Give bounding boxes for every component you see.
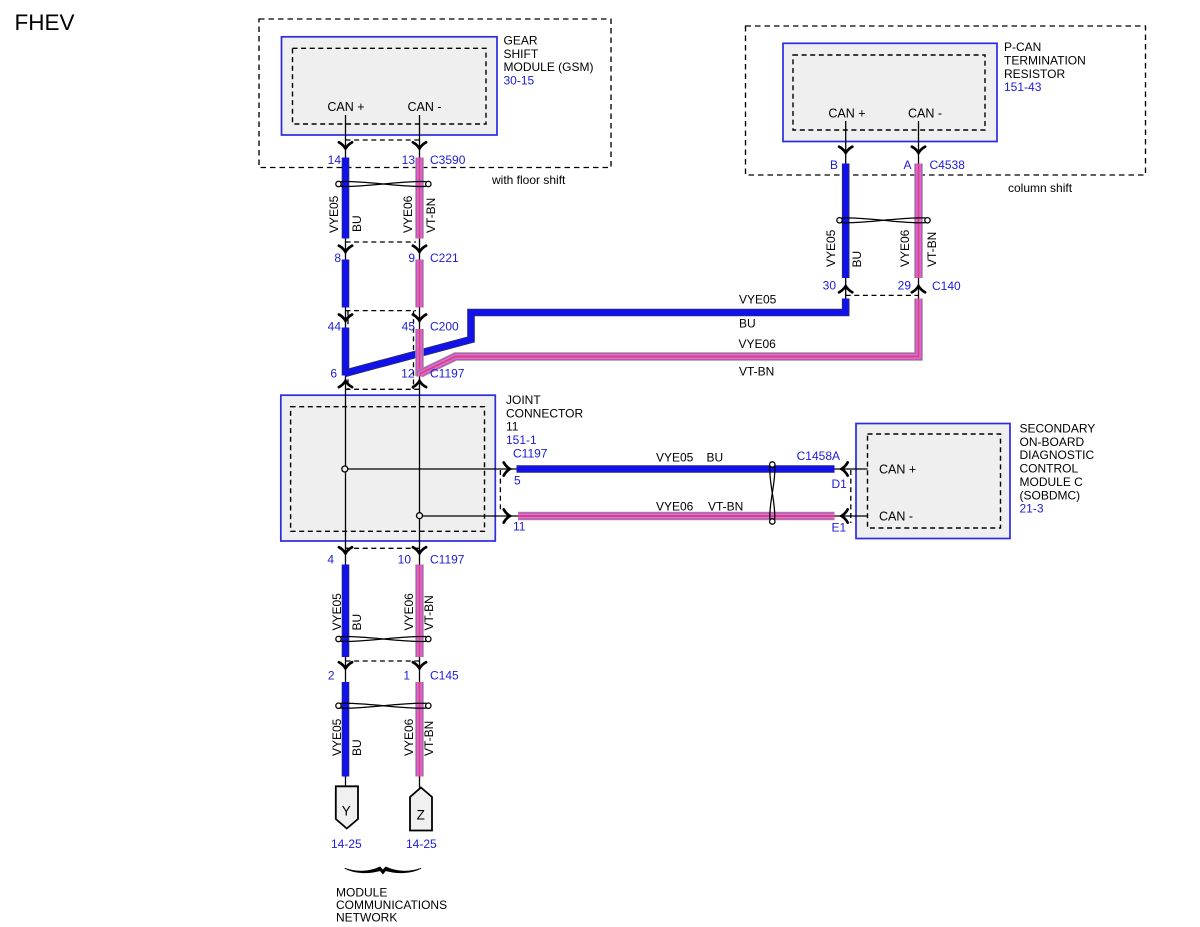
P-CAN termination resistor inner dashed connector box [793,55,985,130]
svg-text:29: 29 [898,278,912,292]
twisted pair symbol (GSM drop) [336,181,431,186]
svg-text:MODULE C: MODULE C [1020,475,1084,489]
P-CAN termination resistor blue module box [783,43,997,141]
svg-text:11: 11 [506,420,519,434]
arrow at C200 pin 45 [413,315,426,321]
arrow into P-CAN pin A [912,147,925,153]
joint connector 11 blue module box [281,395,496,541]
svg-text:CAN +: CAN + [828,107,865,121]
arrow into SOBDMC pin E1 [841,509,847,522]
arrow at C145 pin 2 [339,662,352,668]
svg-text:C200: C200 [430,320,459,334]
arrow into SOBDMC pin D1 [841,462,847,475]
connector C1197 dashed line (pins 5/11) [499,470,501,510]
arrow at C145 pin 1 [413,662,426,668]
GSM module label [504,34,594,88]
wire VYE05 (BU) segment, C145 pin 2 to terminal Y [342,682,350,777]
svg-text:45: 45 [402,320,416,334]
svg-text:VYE06: VYE06 [656,499,694,513]
svg-text:SHIFT: SHIFT [504,47,539,61]
svg-text:BU: BU [739,317,756,331]
arrow at C140 pin 29 [912,286,925,292]
SOBDMC module label [1020,422,1096,516]
svg-text:NETWORK: NETWORK [336,910,397,924]
svg-text:13: 13 [402,153,416,167]
svg-text:C1197: C1197 [513,446,548,460]
svg-text:D1: D1 [832,477,848,491]
svg-text:column shift: column shift [1008,181,1073,195]
svg-text:JOINT: JOINT [506,393,541,407]
svg-text:1: 1 [403,669,410,683]
svg-text:ON-BOARD: ON-BOARD [1020,435,1085,449]
svg-text:C221: C221 [430,251,459,265]
joint connector internal node, pin 6/4 bus junction [342,466,348,472]
gear shift module (GSM) outer dashed boundary [259,19,611,168]
joint connector label [506,393,583,447]
svg-text:VT-BN: VT-BN [422,595,436,630]
svg-text:151-1: 151-1 [506,433,537,447]
arrow at C140 pin 30 [839,286,852,292]
connector C145 dashed line [346,660,421,662]
svg-text:VYE06: VYE06 [898,229,912,267]
svg-text:VYE05: VYE05 [739,293,777,307]
svg-text:(SOBDMC): (SOBDMC) [1020,488,1081,502]
wire CAN- thin lead, GSM pin 13 down to terminal Z [419,115,421,788]
svg-text:44: 44 [328,320,342,334]
svg-text:BU: BU [350,614,364,631]
arrow at C1197 pin 10 [413,547,426,553]
wire VYE06 (VT-BN) run, C140 pin 29 to C1197 pin 12 [420,299,918,377]
arrow at C1197 pin 4 [339,547,352,553]
arrow at C1197 pin 12 [413,381,426,387]
svg-text:2: 2 [328,669,335,683]
joint connector internal node, pin 12/10 bus junction [417,513,423,519]
svg-text:CAN +: CAN + [879,463,916,477]
svg-text:9: 9 [408,251,415,265]
svg-text:BU: BU [350,215,364,232]
svg-text:11: 11 [513,520,526,534]
gear shift module (GSM) blue module box [282,37,498,135]
connector C1458A dashed line [850,470,852,523]
wire VYE06 (VT-BN) segment, C1197 pin 10 to C145 pin 1 [415,565,424,658]
gear shift module (GSM) inner dashed connector box [293,48,487,124]
svg-text:CAN -: CAN - [407,100,441,114]
brace for module communications network group [345,867,421,874]
SOBDMC inner dashed connector box [868,434,1001,528]
wire VYE05 (BU) run, C140 pin 30 to C1197 pin 6 [345,299,846,374]
svg-text:VT-BN: VT-BN [422,721,436,756]
svg-text:VYE06: VYE06 [401,195,415,233]
svg-text:BU: BU [350,739,364,756]
svg-text:VT-BN: VT-BN [739,365,774,379]
wire CAN+ thin lead, P-CAN resistor pin B to C140 pin 30 [845,121,847,299]
svg-text:30: 30 [823,278,837,292]
wire VYE05 (BU) segment, C1197 pin 4 to C145 pin 2 [342,565,350,658]
arrow out of joint connector pin 5 [504,462,510,475]
wire VYE06 (VT-BN) segment, GSM pin 13 to C221 pin 9 [415,158,424,239]
arrow into P-CAN pin B [839,147,852,153]
terminal Y (eyelet) [336,786,358,828]
svg-text:VYE06: VYE06 [402,718,416,756]
svg-text:SECONDARY: SECONDARY [1020,422,1096,436]
svg-text:BU: BU [850,251,864,268]
svg-text:BU: BU [707,450,724,464]
svg-text:C145: C145 [430,669,459,683]
svg-text:RESISTOR: RESISTOR [1004,67,1065,81]
module communications network caption [336,885,447,924]
wire VYE06 (VT-BN) segment, C200 pin 45 to C1197 pin 12 [415,329,424,376]
connector C1197 dashed boundary right side [413,311,415,390]
svg-text:Y: Y [342,804,351,819]
svg-text:8: 8 [334,251,341,265]
svg-text:C140: C140 [932,279,961,293]
svg-text:MODULE (GSM): MODULE (GSM) [504,60,594,74]
svg-text:VYE06: VYE06 [402,593,416,631]
connector C140 dashed line [846,294,919,296]
svg-text:C3590: C3590 [430,153,466,167]
svg-text:151-43: 151-43 [1004,80,1042,94]
svg-text:VYE06: VYE06 [739,337,777,351]
terminal Z (blade) [410,788,432,831]
wire CAN+ thin lead, GSM pin 14 down to terminal Y [345,115,347,786]
svg-text:C4538: C4538 [930,158,966,172]
svg-text:30-15: 30-15 [504,73,535,87]
wire VYE06 (VT-BN) segment, joint connector pin 11 to SOBDMC E1 [518,512,835,521]
connector C200 dashed line [346,310,417,312]
svg-text:VT-BN: VT-BN [708,499,743,513]
svg-text:CAN -: CAN - [908,107,942,121]
P-CAN termination resistor outer dashed boundary [746,26,1146,175]
P-CAN termination resistor label [1004,40,1086,94]
twisted pair symbol (below joint connector) [336,636,431,641]
svg-text:VYE05: VYE05 [330,718,344,756]
svg-text:VT-BN: VT-BN [424,198,438,233]
svg-text:21-3: 21-3 [1020,502,1044,516]
svg-text:10: 10 [398,552,412,566]
wire VYE06 (VT-BN) segment, C221 pin 9 to C200 pin 45 [415,260,424,308]
svg-text:12: 12 [401,367,415,381]
svg-text:C1458A: C1458A [797,449,840,463]
svg-text:GEAR: GEAR [504,34,538,48]
svg-text:Z: Z [417,808,425,823]
svg-text:TERMINATION: TERMINATION [1004,54,1086,68]
arrow at C221 pin 9 [413,246,426,252]
svg-text:P-CAN: P-CAN [1004,40,1041,54]
twisted pair symbol (P-CAN drop) [837,218,930,223]
svg-text:C1197: C1197 [430,552,465,566]
wire CAN- thin lead, P-CAN resistor pin A to C140 pin 29 [918,121,920,299]
joint connector 11 inner dashed connector box [291,407,485,532]
svg-text:E1: E1 [832,520,847,534]
svg-text:CONNECTOR: CONNECTOR [506,406,583,420]
wire VYE05 (BU) segment, C221 pin 8 to C200 pin 44 [342,260,350,308]
connector C1197 dashed line (pins 4/10) [346,547,421,549]
wire VYE05 (BU) segment, GSM pin 14 to C221 pin 8 [342,158,350,239]
arrow into GSM pin 13 [413,142,426,148]
svg-text:VYE05: VYE05 [330,593,344,631]
svg-text:CONTROL: CONTROL [1020,462,1079,476]
twisted pair symbol (above terminals) [336,703,431,708]
wire thin lead, joint connector pin 5 to SOBDMC CAN+ [348,468,868,470]
wire VYE05 (BU) segment, joint connector pin 5 to SOBDMC D1 [517,465,835,473]
svg-text:14-25: 14-25 [331,837,362,851]
svg-text:14-25: 14-25 [406,837,437,851]
twisted pair symbol (SOBDMC branch) [770,462,775,524]
svg-text:VYE05: VYE05 [656,450,694,464]
svg-text:FHEV: FHEV [15,10,75,35]
SOBDMC blue module box [856,424,1010,539]
connector C3590 dashed line [346,139,420,141]
arrow at C221 pin 8 [339,246,352,252]
svg-text:C1197: C1197 [430,367,465,381]
wire VYE06 (VT-BN) segment, C145 pin 1 to terminal Z [415,682,424,777]
arrow into GSM pin 14 [339,142,352,148]
svg-text:VYE05: VYE05 [327,195,341,233]
svg-text:B: B [830,158,838,172]
connector C221 dashed line [346,241,417,243]
svg-text:VT-BN: VT-BN [925,232,939,267]
svg-text:5: 5 [514,474,521,488]
wire thin lead, joint connector pin 11 to SOBDMC CAN- [422,515,868,517]
svg-text:A: A [903,158,911,172]
wire VYE06 (VT-BN) segment, P-CAN pin A to C140 pin 29 [914,164,923,279]
connector C1197 dashed boundary left side [347,311,349,390]
svg-text:VYE05: VYE05 [824,229,838,267]
svg-text:14: 14 [328,153,342,167]
connector C1197 dashed line (pins 6/12) [346,388,421,390]
arrow at C1197 pin 6 [339,381,352,387]
svg-text:CAN -: CAN - [879,510,913,524]
svg-text:4: 4 [327,552,334,566]
wire VYE05 (BU) segment, C200 pin 44 to C1197 pin 6 [342,328,350,376]
svg-text:with floor shift: with floor shift [491,173,566,187]
arrow at C200 pin 44 [339,315,352,321]
svg-text:CAN +: CAN + [327,100,364,114]
arrow out of joint connector pin 11 [504,509,510,522]
svg-text:DIAGNOSTIC: DIAGNOSTIC [1020,448,1095,462]
wire VYE05 (BU) segment, P-CAN pin B to C140 pin 30 [842,164,850,279]
svg-text:6: 6 [330,367,337,381]
